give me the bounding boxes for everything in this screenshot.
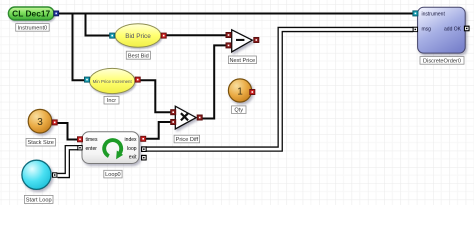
label Stack Size	[26, 138, 56, 146]
label Instrument0	[16, 24, 50, 32]
svg-text:3: 3	[37, 117, 43, 128]
connector Loop0 times (red)	[78, 137, 83, 142]
svg-text:add OK: add OK	[444, 26, 462, 32]
connector Price Diff input2 (red)	[171, 120, 176, 125]
const Stack Size (orange sphere 3)	[28, 109, 52, 133]
wire Price Diff out to Next Price input2	[202, 45, 226, 118]
op multiply Price Diff (triangle with x)	[175, 106, 196, 129]
svg-text:Start Loop: Start Loop	[26, 198, 52, 204]
block Bid Price (yellow ellipse)	[115, 24, 161, 47]
svg-text:1: 1	[237, 86, 243, 97]
wire branch down to Min Price Increment input	[73, 14, 85, 81]
label Loop0	[104, 170, 122, 178]
connector Loop0 index (red)	[141, 136, 146, 141]
svg-text:enter: enter	[86, 146, 98, 152]
svg-text:Instrument0: Instrument0	[18, 25, 48, 31]
wire Instrument0 out to DiscreteOrder0 instrument (main top wire)	[58, 13, 413, 15]
label Incr	[104, 96, 119, 104]
wire Loop0 index out to Price Diff input2	[144, 122, 171, 139]
connector Stack Size output (red)	[52, 120, 57, 125]
wire Stack Size out to Loop0 times	[58, 123, 79, 140]
wire Min Price Increment out to Price Diff input1	[140, 80, 171, 112]
svg-text:Price Diff: Price Diff	[176, 137, 199, 143]
node DiscreteOrder0 (periwinkle rounded rect)	[418, 7, 466, 53]
svg-text:Bid Price: Bid Price	[125, 33, 151, 40]
event Start Loop (cyan sphere)	[22, 160, 51, 189]
svg-text:times: times	[86, 137, 98, 143]
connector Min Price Increment input (teal)	[85, 77, 90, 82]
connector Instrument0 output (navy)	[54, 11, 59, 16]
label Start Loop	[24, 195, 53, 203]
label Next Price	[228, 56, 256, 64]
svg-text:Stack Size: Stack Size	[27, 140, 53, 146]
connector Bid Price output (red)	[161, 33, 166, 38]
connector Start Loop output (black discrete)	[52, 172, 57, 177]
connector Price Diff output (red)	[197, 115, 202, 120]
connector Next Price input2 (red)	[226, 43, 231, 48]
svg-text:DiscreteOrder0: DiscreteOrder0	[423, 58, 461, 64]
connector Loop0 loop (black discrete)	[141, 146, 147, 152]
svg-text:loop: loop	[127, 146, 137, 152]
connector Next Price input1 (red)	[226, 33, 231, 38]
connector Bid Price input (teal)	[110, 33, 115, 38]
svg-text:Next Price: Next Price	[229, 58, 255, 64]
connector DiscreteOrder0 msg (black discrete)	[413, 27, 418, 32]
icon Loop0 circular arrow	[104, 140, 123, 159]
svg-text:Incr: Incr	[107, 98, 116, 104]
const Qty (orange sphere 1)	[228, 79, 251, 102]
svg-text:Qty: Qty	[234, 108, 243, 114]
svg-text:CL Dec17: CL Dec17	[12, 9, 50, 19]
connector Next Price output (red)	[254, 38, 259, 43]
connector Qty output (red)	[250, 90, 255, 95]
svg-text:msg: msg	[422, 26, 432, 32]
wire Bid Price out to Next Price input1	[166, 34, 226, 36]
svg-text:Loop0: Loop0	[105, 172, 121, 178]
cable Loop0 loop out to DiscreteOrder0 msg (discrete double line)	[146, 30, 413, 150]
connector Min Price Increment output (red)	[135, 77, 140, 82]
svg-text:exit: exit	[129, 154, 137, 160]
connector Loop0 exit (black discrete)	[141, 155, 147, 161]
node Loop0 (white rounded rect)	[82, 132, 139, 164]
label Best Bid	[126, 51, 150, 59]
connector Price Diff input1 (red)	[171, 110, 176, 115]
connector DiscreteOrder0 add OK (black discrete)	[464, 26, 470, 32]
svg-text:Min Price Increment: Min Price Increment	[93, 79, 133, 84]
node Instrument0 (CL Dec17 green pill)	[8, 7, 54, 20]
label Qty	[232, 106, 247, 114]
svg-text:Best Bid: Best Bid	[128, 53, 149, 59]
label Price Diff	[174, 135, 200, 143]
wire branch down to Bid Price input	[86, 14, 110, 36]
block Min Price Increment (yellow ellipse)	[90, 68, 135, 93]
svg-text:index: index	[125, 137, 137, 143]
op subtract Next Price (triangle with minus)	[232, 30, 253, 52]
svg-text:instrument: instrument	[422, 11, 446, 17]
label DiscreteOrder0	[420, 57, 464, 65]
connector Loop0 enter (black discrete)	[77, 145, 82, 150]
connector DiscreteOrder0 instrument (teal)	[413, 11, 418, 16]
cable Start Loop out to Loop0 enter (discrete double line)	[58, 148, 79, 176]
